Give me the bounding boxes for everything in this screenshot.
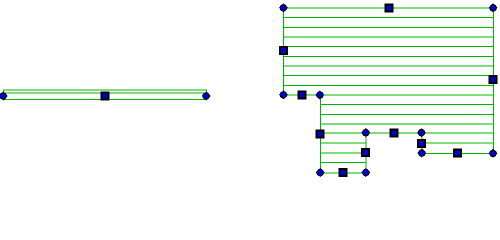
vertex handle J: [279, 90, 288, 99]
polygon hatch lines: [284, 18, 494, 163]
left trace endpoint handle 1: [0, 92, 8, 101]
left trace hatch line: [3, 92, 206, 94]
midpoint handle CD: [453, 149, 462, 158]
vertex handle I: [315, 91, 324, 100]
left trace midpoint handle: [101, 92, 110, 101]
vertex handle B: [489, 3, 498, 12]
midpoint handle JA: [279, 46, 288, 55]
midpoint handle GH: [338, 168, 347, 177]
vertex handle E: [417, 128, 426, 137]
midpoint handle BC: [489, 75, 498, 84]
midpoint handle AB: [385, 3, 394, 12]
left trace outline: [3, 90, 206, 100]
vertex handle A: [279, 3, 288, 12]
vertex handle F: [361, 128, 370, 137]
vertex handle H: [316, 168, 325, 177]
polygon outline: [284, 8, 494, 173]
vertex handle C: [489, 149, 498, 158]
midpoint handle IJ: [297, 90, 306, 99]
vertex handle D: [417, 149, 426, 158]
midpoint handle DE: [417, 139, 426, 148]
midpoint handle HI: [315, 129, 324, 138]
vertex handle G: [361, 168, 370, 177]
left trace endpoint handle 2: [202, 92, 211, 101]
midpoint handle FG: [361, 148, 370, 157]
midpoint handle EF: [389, 129, 398, 138]
